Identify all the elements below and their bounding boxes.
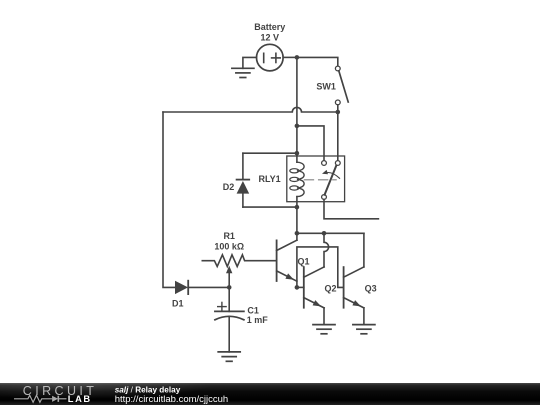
transistor Q3: [344, 267, 364, 308]
wire battery left stub: [243, 57, 257, 68]
ground (Q3): [353, 325, 375, 334]
wire node A to SW1: [297, 57, 338, 66]
capacitor C1: [215, 302, 244, 319]
wire Q2 collector vertical with hop: [324, 233, 329, 267]
diode D2: [237, 153, 250, 207]
wire main vertical from node A down: [296, 57, 298, 126]
svg-text:Battery: Battery: [254, 22, 285, 32]
node H junction dot: [295, 285, 300, 290]
wire Q1 collector vertical: [296, 233, 298, 240]
node D junction dot: [295, 151, 300, 156]
svg-text:D2: D2: [223, 182, 235, 192]
potentiometer R1: [202, 255, 276, 267]
ground (Q2): [313, 325, 335, 334]
wire collector rail: [297, 232, 364, 234]
relay RLY1 actuate arrow: [325, 173, 339, 179]
transistor Q1: [277, 240, 297, 281]
svg-text:http://circuitlab.com/cjjccuh: http://circuitlab.com/cjjccuh: [115, 394, 229, 405]
transistor Q2: [304, 267, 324, 308]
wire left rail down: [163, 112, 175, 287]
relay RLY1 dashed link: [305, 179, 337, 181]
wire node B down to relay contact right: [337, 112, 339, 161]
svg-text:D1: D1: [172, 299, 184, 309]
svg-text:Q3: Q3: [365, 284, 377, 294]
relay RLY1 blade: [325, 166, 337, 195]
svg-text:Q2: Q2: [325, 284, 337, 294]
svg-text:Q1: Q1: [298, 257, 310, 267]
node F junction dot: [295, 231, 300, 236]
node I junction dot: [227, 285, 232, 290]
wire coil bottom to rail: [296, 197, 298, 234]
wire C1 to ground: [228, 317, 230, 352]
battery V1: [257, 44, 284, 71]
wire battery to node A: [283, 56, 297, 58]
relay RLY1 box: [287, 156, 345, 202]
wire D2 top: [243, 152, 297, 154]
svg-text:RLY1: RLY1: [259, 174, 281, 184]
svg-text:1 mF: 1 mF: [247, 315, 269, 325]
wire rail down to Q3 collector: [363, 233, 365, 267]
svg-text:R1: R1: [223, 231, 235, 241]
wire D2 bottom: [243, 206, 297, 208]
svg-text:SW1: SW1: [316, 82, 336, 92]
wire SW1 bottom to node B: [337, 105, 339, 112]
node A junction dot: [295, 55, 300, 60]
node G junction dot: [322, 231, 327, 236]
wire Q1 emitter to bases net: [297, 247, 344, 288]
footer logo squiggle resistor-diode: [14, 395, 67, 402]
potentiometer R1 wiper: [228, 272, 230, 287]
relay RLY1 coil: [297, 162, 304, 196]
wire node C to relay contact left: [297, 126, 324, 161]
relay RLY1 contact terminals: [322, 161, 327, 166]
wire node C down to coil: [296, 126, 298, 162]
node C junction dot: [295, 124, 300, 129]
svg-text:LAB: LAB: [68, 394, 92, 404]
node E junction dot: [295, 205, 300, 210]
ground (C1): [218, 352, 240, 361]
wire Q2 emitter vertical: [323, 308, 325, 325]
relay RLY1 coil crossover loops: [290, 169, 299, 190]
wire relay common contact stub: [324, 199, 378, 218]
wire horizontal with hop over main vertical: [163, 107, 338, 112]
svg-text:12 V: 12 V: [261, 33, 280, 43]
footer bar: [0, 383, 540, 405]
wire Q2 base stub: [297, 286, 304, 288]
node B junction dot: [336, 110, 341, 115]
switch SW1: [335, 66, 348, 105]
svg-text:100 kΩ: 100 kΩ: [214, 241, 244, 251]
diode D1: [175, 281, 229, 294]
wire Q3 emitter vertical: [363, 308, 365, 325]
wire junction to C1: [228, 287, 230, 311]
ground (battery): [232, 68, 254, 77]
